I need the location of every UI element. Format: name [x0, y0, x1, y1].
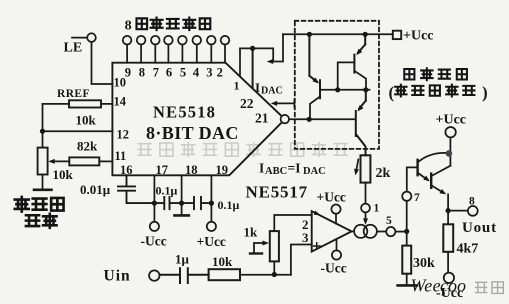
label Uin	[104, 268, 131, 285]
label 10k pot	[53, 167, 74, 182]
label -Ucc	[141, 234, 167, 249]
label 1k	[244, 225, 259, 240]
wire pin18 to ground	[179, 175, 184, 215]
svg-text:8: 8	[125, 19, 132, 34]
wire pin7 to Q1 base	[407, 167, 418, 191]
label pin5	[386, 215, 392, 227]
svg-text:21: 21	[255, 111, 269, 126]
svg-text:1: 1	[234, 79, 240, 93]
arrow at 2k	[353, 160, 359, 176]
label pin1 NE5517	[374, 203, 380, 215]
terminal -Ucc bottom	[150, 222, 159, 231]
svg-text:DAC: DAC	[261, 86, 283, 97]
CIRCUIT-PART2	[104, 21, 497, 301]
svg-text:7: 7	[153, 66, 159, 80]
svg-text:-Ucc: -Ucc	[141, 234, 167, 249]
potentiometer 1k	[270, 215, 312, 275]
arrow IDAC into pin21	[271, 100, 295, 108]
data bus terminal D6 pin4	[193, 36, 202, 63]
transistor Q2 npn	[431, 166, 450, 197]
watermark company text row	[137, 142, 347, 157]
svg-text:1: 1	[374, 203, 380, 215]
ground bar pin18	[175, 214, 189, 217]
data bus terminal D1 pin9	[123, 36, 132, 63]
svg-text:4k7: 4k7	[457, 242, 479, 257]
label pin11	[115, 149, 127, 163]
label 10k input	[212, 254, 233, 269]
svg-text:5: 5	[386, 215, 392, 227]
resistor 2k	[361, 155, 371, 203]
svg-text:3: 3	[206, 66, 212, 80]
label 30k	[413, 256, 435, 271]
svg-text:4: 4	[193, 65, 200, 80]
terminal -Ucc ota	[332, 240, 341, 260]
resistor 82k	[69, 157, 112, 165]
svg-text:0.1μ: 0.1μ	[156, 184, 178, 198]
wire pin5 to junction	[395, 229, 409, 234]
label 0.01u	[80, 182, 111, 197]
svg-text:0.1μ: 0.1μ	[218, 198, 240, 212]
label RREF	[57, 88, 90, 100]
transistor Q1 npn	[418, 153, 450, 184]
label 4k7	[457, 242, 479, 257]
capacitor 0.01u at pin16	[118, 175, 154, 203]
label +Ucc top	[403, 29, 434, 44]
svg-text:12: 12	[117, 128, 130, 142]
svg-text:10k: 10k	[212, 254, 233, 269]
label current mirror line1	[404, 68, 467, 80]
DAC U1 NE5518 outline	[112, 63, 281, 176]
svg-text:6: 6	[166, 66, 172, 80]
svg-text:LE: LE	[64, 41, 83, 56]
svg-text:8: 8	[469, 196, 475, 208]
svg-text:+Ucc: +Ucc	[403, 29, 434, 44]
terminal -Ucc right	[444, 273, 454, 283]
labels right pins 1 22 21	[234, 79, 269, 126]
wire +Ucc down collector	[446, 137, 453, 165]
watermark weeqoo logo	[411, 276, 504, 296]
svg-text:2k: 2k	[376, 166, 391, 181]
svg-text:82k: 82k	[77, 139, 98, 154]
svg-text:-Ucc: -Ucc	[436, 286, 463, 301]
transistor Q5 lower pnp	[356, 90, 366, 156]
svg-text:10: 10	[114, 76, 127, 90]
svg-text:ABC: ABC	[265, 166, 287, 177]
terminal +Ucc top square	[393, 31, 401, 39]
label current mirror line2	[395, 85, 474, 97]
wire OTA out to pin5	[377, 231, 386, 233]
svg-text:NE5518: NE5518	[153, 103, 216, 122]
svg-text:NE5517: NE5517	[246, 183, 308, 202]
svg-text:0.01μ: 0.01μ	[80, 182, 111, 197]
input polarity marks	[314, 211, 321, 250]
terminal pin1 NE5517	[361, 204, 370, 213]
label pin2 pin3	[302, 217, 309, 245]
ground bar under pot	[34, 189, 52, 192]
svg-text:DAC: DAC	[303, 166, 326, 177]
capacitor 1u input	[160, 268, 209, 283]
wire pin17 down	[152, 175, 157, 222]
label +Ucc	[197, 234, 226, 249]
capacitor 0.1u second	[182, 197, 212, 209]
svg-text:Uout: Uout	[462, 220, 497, 236]
data bus terminal D3 pin7	[151, 36, 160, 63]
wire pin22 stub up	[252, 48, 254, 88]
svg-text:22: 22	[240, 96, 254, 111]
node pin21 output circle of U1	[281, 115, 289, 123]
capacitor 0.1u first	[154, 197, 181, 209]
svg-text:14: 14	[114, 95, 127, 109]
resistor 30k	[402, 231, 411, 285]
svg-text:+Ucc: +Ucc	[436, 113, 467, 128]
label pin8	[469, 196, 475, 208]
wire junction up to pin7	[406, 201, 408, 232]
label pin10	[114, 76, 127, 90]
terminal pin5	[386, 227, 395, 236]
terminal Uin	[149, 270, 159, 280]
svg-text:+Ucc: +Ucc	[197, 234, 226, 249]
terminal +Ucc ota	[331, 205, 340, 224]
label pin7	[414, 192, 420, 204]
wire +Ucc top rail	[283, 32, 393, 37]
wire LE to pin10	[92, 42, 113, 84]
op-amp U2 triangle	[312, 211, 352, 251]
data bus terminal D7 pin3	[207, 36, 216, 63]
svg-text:19: 19	[216, 163, 229, 177]
label +Ucc right	[436, 113, 467, 128]
svg-text:2: 2	[217, 66, 223, 80]
label 1u	[175, 252, 190, 267]
resistor 10k input	[209, 269, 291, 280]
label pin14	[114, 95, 127, 109]
resistor 4k7	[443, 224, 453, 272]
labels U1 name	[146, 103, 239, 144]
label 8-bit data bus header	[125, 19, 132, 34]
svg-text:): )	[482, 83, 488, 102]
wire to pin12	[43, 130, 113, 132]
terminal +Ucc bottom	[207, 222, 216, 231]
svg-text:(: (	[389, 83, 395, 102]
svg-text:-Ucc: -Ucc	[321, 261, 347, 276]
label 0.1u second	[218, 198, 240, 212]
wire arrow to pins rail	[267, 34, 283, 64]
pot wiper arrow from 82k	[48, 159, 69, 164]
svg-text:17: 17	[156, 163, 169, 177]
label 82k	[77, 139, 98, 154]
svg-text:1μ: 1μ	[175, 252, 190, 267]
label Uout	[462, 220, 497, 236]
svg-text:I: I	[255, 80, 260, 95]
label +Ucc ota	[317, 190, 346, 205]
svg-text:RREF: RREF	[57, 88, 90, 100]
transistor Q4 top right pnp diode-connected	[338, 34, 366, 90]
label 0.1u first	[156, 184, 178, 198]
data bus terminal D2 pin8	[137, 36, 146, 63]
wire arrow into OTA source	[363, 212, 368, 224]
transistor Q3 left pnp	[309, 34, 320, 119]
label IABC=IDAC	[259, 161, 326, 178]
pot 1k wiper to ground	[250, 241, 269, 254]
svg-text:8·BIT DAC: 8·BIT DAC	[146, 123, 239, 143]
wire to pin3	[291, 245, 312, 275]
label -Ucc right	[436, 286, 463, 301]
data bus terminal D5 pin5	[178, 36, 187, 63]
wire Q2 emitter down	[446, 194, 451, 224]
label 2k	[376, 166, 391, 181]
wire RREF left vertical	[40, 104, 45, 148]
resistor RREF 10k	[43, 100, 113, 107]
label NE5517	[246, 183, 308, 202]
svg-text:=I: =I	[288, 161, 301, 176]
svg-text:5: 5	[180, 66, 186, 80]
label full-scale adjust line1	[15, 197, 64, 212]
svg-text:1k: 1k	[244, 225, 259, 240]
svg-text:7: 7	[414, 192, 420, 204]
svg-text:8: 8	[139, 66, 145, 80]
label current mirror parens	[389, 83, 488, 102]
potentiometer 10k full-scale	[38, 148, 48, 190]
svg-text:+Ucc: +Ucc	[317, 190, 346, 205]
wire common base rail	[321, 87, 370, 92]
terminal pin8	[468, 206, 478, 216]
label LE	[64, 41, 83, 56]
label pin12	[117, 128, 130, 142]
terminal +Ucc right	[445, 127, 455, 137]
wire to pin8	[448, 210, 468, 212]
svg-text:11: 11	[115, 149, 127, 163]
wire pin1 stub up	[239, 48, 241, 76]
label -Ucc ota	[321, 261, 347, 276]
OTA output current source double circle	[352, 225, 377, 238]
data bus terminal D8 pin2	[221, 36, 230, 63]
svg-text:30k: 30k	[413, 256, 435, 271]
svg-text:Uin: Uin	[104, 268, 131, 285]
svg-text:3: 3	[302, 230, 309, 245]
label 10k upper	[76, 113, 97, 128]
label IDAC	[255, 80, 283, 97]
svg-text:10k: 10k	[53, 167, 74, 182]
wire rail pins 1,22	[240, 46, 273, 62]
wire DAC output to Q5 base	[289, 117, 355, 122]
pin labels 9 8 7 6 5 4 3 2	[125, 65, 223, 80]
terminal pin7	[402, 192, 411, 201]
label full-scale adjust line2	[26, 214, 57, 228]
svg-text:18: 18	[185, 163, 198, 177]
svg-text:I: I	[259, 161, 264, 176]
svg-text:10k: 10k	[76, 113, 97, 128]
terminal LE	[72, 33, 96, 42]
labels bottom pins 16 17 18 19	[120, 163, 228, 177]
wire pin19 down	[209, 175, 214, 222]
data bus terminal D4 pin6	[164, 36, 173, 63]
ground bar under 30k	[398, 284, 417, 287]
dashed box current mirror	[295, 21, 379, 149]
